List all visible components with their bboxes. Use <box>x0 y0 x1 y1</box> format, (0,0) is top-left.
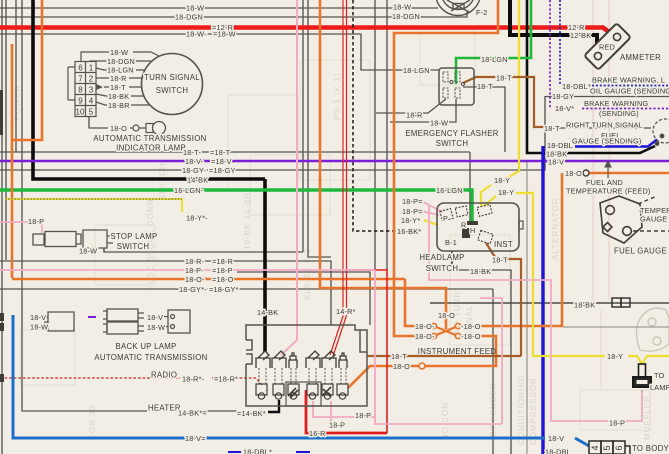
wire 18-DGN top row <box>0 11 467 17</box>
faint pink bleed band left <box>600 310 602 390</box>
automatic transmission indicator lamp <box>133 125 139 131</box>
svg-text:14-BK: 14-BK <box>257 308 278 317</box>
svg-text:18-P: 18-P <box>355 411 371 420</box>
svg-text:5: 5 <box>602 445 612 450</box>
headlamp switch pins <box>440 204 493 243</box>
wire grey 18-BK vertical x511 <box>452 270 511 454</box>
svg-text:12-BK: 12-BK <box>570 31 591 40</box>
fuel gauge dashed links <box>633 196 669 231</box>
svg-text:TURN SIGNAL: TURN SIGNAL <box>144 73 200 82</box>
svg-text:18-P-: 18-P- <box>185 266 204 275</box>
wire purple tick backup <box>88 316 96 318</box>
wire pink fuse stub A <box>313 401 375 417</box>
svg-text:18-O: 18-O <box>110 124 127 133</box>
wire pink headlamp stubs <box>421 201 443 215</box>
wire grey heater label link <box>205 410 237 412</box>
svg-text:18-T: 18-T <box>477 82 493 91</box>
wire orange distributor feed <box>394 0 498 336</box>
svg-text:18-Y: 18-Y <box>494 176 510 185</box>
wire grey vertical x527 lower <box>526 160 528 454</box>
svg-text:18-W: 18-W <box>30 323 48 332</box>
left edge connector marks <box>0 90 4 382</box>
wire grey vertical left edge B <box>5 0 7 260</box>
svg-text:POWER: POWER <box>13 85 22 120</box>
svg-text:=18-V: =18-V <box>211 157 232 166</box>
svg-text:OIL GAUGE (SENDING: OIL GAUGE (SENDING <box>590 87 669 96</box>
wire red vertical x387 <box>345 270 387 433</box>
svg-text:18-W: 18-W <box>147 323 165 332</box>
wire brown 18-T fuse row <box>367 355 521 357</box>
wire grey vertical center x308 <box>308 0 331 257</box>
wire grey 18-BK connector row y303 <box>430 302 669 304</box>
emergency flasher switch box <box>439 68 474 105</box>
fuse dashed strands <box>259 368 346 384</box>
wire green 18-LGN flasher <box>456 0 531 84</box>
svg-text:RED: RED <box>599 43 615 52</box>
svg-text:18-LGN: 18-LGN <box>481 55 508 64</box>
svg-text:18-DBL*: 18-DBL* <box>562 82 591 91</box>
svg-text:MUFFLER: MUFFLER <box>643 395 652 440</box>
wire grey vertical left edge A <box>1 0 3 454</box>
svg-text:18-V: 18-V <box>548 158 564 167</box>
svg-text:BRAKE WARNING: BRAKE WARNING <box>584 99 648 108</box>
svg-text:=18-GY: =18-GY <box>209 166 236 175</box>
svg-text:16-BK*: 16-BK* <box>397 227 421 236</box>
wire black 12-BK ammeter <box>510 0 597 52</box>
wire grey vertical left x16 <box>15 0 17 152</box>
wire yellow stub 18-Y* <box>424 220 438 225</box>
wire grey 18-GY row <box>0 96 545 170</box>
wire grey row under pink 18-P <box>237 272 370 325</box>
wire grey 18-T row <box>0 152 470 225</box>
svg-text:18-O-: 18-O- <box>415 322 435 331</box>
wire orange left vertical x12 <box>11 44 14 278</box>
wire blue 18-DBL main vertical <box>541 146 544 454</box>
svg-text:18-R*-: 18-R*- <box>182 375 205 384</box>
svg-text:SWITCH: SWITCH <box>158 162 167 200</box>
wire blue 18-V backup body feed <box>13 315 589 446</box>
svg-text:P: P <box>443 214 448 223</box>
svg-text:18-W: 18-W <box>430 119 448 128</box>
wire black long vertical x527 to gauges <box>527 0 655 153</box>
svg-text:18-O: 18-O <box>393 362 410 371</box>
wire purple dashed brake warning sending <box>550 0 669 109</box>
svg-text:16-LGN: 16-LGN <box>436 186 463 195</box>
svg-text:18-Y*: 18-Y* <box>401 216 420 225</box>
svg-text:AUTOMATIC TRANSMISSION: AUTOMATIC TRANSMISSION <box>93 134 206 143</box>
wire grey vertical x493 <box>492 289 494 454</box>
svg-text:18-GY: 18-GY <box>552 92 574 101</box>
wire grey vertical center x303 <box>302 0 304 252</box>
svg-text:18-P: 18-P <box>329 421 345 430</box>
headlamp switch body INST <box>437 203 519 251</box>
svg-text:18-BR: 18-BR <box>108 101 130 110</box>
svg-text:R: R <box>461 221 466 230</box>
wire grey 18-T flasher vertical <box>463 87 505 152</box>
svg-text:18-BK 14-BR: 18-BK 14-BR <box>243 192 252 250</box>
svg-text:SWITCH: SWITCH <box>156 86 189 95</box>
svg-text:H: H <box>470 226 475 235</box>
faint pink bleed bands right <box>593 0 609 305</box>
svg-text:STOP LAMP: STOP LAMP <box>110 232 157 241</box>
svg-text:B-1: B-1 <box>445 238 457 247</box>
wire red 12-R main feed <box>0 28 617 39</box>
stop lamp switch <box>33 230 113 252</box>
wire brown 18-T instrument to INST <box>486 243 521 356</box>
svg-text:18-O-: 18-O- <box>185 275 205 284</box>
wire yellow vertical x519 to headlamp <box>481 0 519 207</box>
wire grey faint row y327 right <box>563 326 669 328</box>
svg-text:18-T: 18-T <box>391 352 407 361</box>
wire grey right turn signal row <box>545 127 651 129</box>
svg-text:=18-O: =18-O <box>212 275 234 284</box>
wire grey flasher 18-R <box>376 99 446 113</box>
svg-text:CONDITIONING: CONDITIONING <box>517 374 526 445</box>
svg-text:16-R: 16-R <box>309 429 326 438</box>
svg-text:16-LGN-: 16-LGN- <box>174 186 204 195</box>
wire red dashed radio feed <box>0 378 262 385</box>
svg-text:-18-O: -18-O <box>461 332 481 341</box>
turn signal connector block <box>68 52 159 117</box>
wire grey 18-W stop lamp bus <box>104 248 303 252</box>
svg-text:18-V: 18-V <box>548 434 564 443</box>
wire black 18-BK headlamp switch <box>451 251 453 270</box>
wire brown 18-T flasher to right turn signal <box>463 77 545 127</box>
instrument feed X node <box>434 326 458 336</box>
turn signal pin 3 arrow <box>96 84 103 90</box>
svg-text:18-W: 18-W <box>186 4 204 13</box>
svg-text:=18-W: =18-W <box>213 30 236 39</box>
svg-text:6: 6 <box>78 64 83 73</box>
svg-text:HEATER: HEATER <box>148 404 181 413</box>
svg-text:TO: TO <box>654 371 665 380</box>
emergency flasher pins <box>443 72 465 98</box>
backup lamp left connector <box>42 312 74 331</box>
svg-text:18-V-: 18-V- <box>185 157 204 166</box>
svg-text:18-O: 18-O <box>438 311 455 320</box>
wire pink fuse stub B <box>330 401 332 424</box>
svg-text:GAUGE (S: GAUGE (S <box>640 215 669 224</box>
bleed gauge blob top-right of fuse area <box>636 308 669 351</box>
svg-text:18-W-: 18-W- <box>186 30 207 39</box>
svg-text:18-BK: 18-BK <box>574 301 595 310</box>
fuel temperature feed terminal <box>583 170 589 176</box>
turn signal connector numbers <box>76 64 94 117</box>
headlamp switch R pin solid <box>462 228 470 238</box>
wire grey flasher 18-W <box>390 99 456 122</box>
svg-text:COMPRESSOR: COMPRESSOR <box>529 377 538 445</box>
svg-text:18-DBL: 18-DBL <box>545 448 571 454</box>
wire black 14-BK vertical to fuse block <box>263 179 267 352</box>
svg-text:18-T: 18-T <box>110 83 126 92</box>
svg-text:(SENDING): (SENDING) <box>599 109 639 118</box>
svg-text:18-O-: 18-O- <box>415 332 435 341</box>
svg-text:18-T-: 18-T- <box>183 148 201 157</box>
backup lamp right connector <box>164 310 190 333</box>
svg-text:RIGHT TURN SIGNAL: RIGHT TURN SIGNAL <box>566 121 643 130</box>
wire 18-W second row to flasher <box>0 34 439 70</box>
svg-text:NO CON: NO CON <box>441 402 450 440</box>
wire black main vertical x33 14-BK <box>33 0 265 179</box>
svg-text:18-R: 18-R <box>110 74 127 83</box>
wire orange fuel temperature feed row <box>589 172 669 175</box>
wire orange left vertical x42 <box>12 0 42 140</box>
wire grey 18-GY* bus row <box>0 288 493 290</box>
svg-text:=18-R: =18-R <box>212 257 233 266</box>
svg-text:TEMPERATURE (FEED): TEMPERATURE (FEED) <box>566 187 651 196</box>
svg-text:10: 10 <box>76 108 85 117</box>
svg-text:8: 8 <box>78 86 83 95</box>
svg-text:18-T: 18-T <box>496 74 512 83</box>
svg-text:HEADLAMP: HEADLAMP <box>419 253 464 262</box>
turn signal switch circle <box>142 54 203 115</box>
svg-text:AUTOMATIC TRANSMISSION: AUTOMATIC TRANSMISSION <box>94 353 207 362</box>
svg-text:=14-BK*: =14-BK* <box>237 409 266 418</box>
svg-text:1: 1 <box>89 64 94 73</box>
fuse lug marks <box>288 387 331 398</box>
wire pink stop lamp feed <box>0 222 42 233</box>
fuel temperature feed arrow <box>605 161 611 178</box>
svg-text:18-LGN: 18-LGN <box>403 66 430 75</box>
lamp bulb to lamp <box>633 364 651 387</box>
svg-text:3: 3 <box>89 86 94 95</box>
wire pink x502 vertical <box>480 298 502 424</box>
svg-text:=18-P: =18-P <box>212 266 233 275</box>
instrument feed splice terminal <box>419 363 425 369</box>
wire pink x375 to fuse bottom <box>375 270 502 424</box>
wire yellow 18-Y headlamp to lamp <box>484 193 669 364</box>
svg-text:18-V: 18-V <box>147 313 163 322</box>
svg-text:INSTRUMENT FEED: INSTRUMENT FEED <box>418 347 496 356</box>
wire dark blue 18-DBL fuel gauge sending <box>575 140 657 147</box>
svg-text:5: 5 <box>89 108 94 117</box>
svg-text:18-V*: 18-V* <box>555 104 574 113</box>
svg-text:SWITCH: SWITCH <box>426 264 459 273</box>
wire green 16-LGN main row <box>0 190 472 222</box>
svg-text:GAUGE (SENDING): GAUGE (SENDING) <box>572 137 642 146</box>
svg-text:LAMP: LAMP <box>650 383 669 392</box>
svg-text:18-P=: 18-P= <box>402 197 423 206</box>
svg-text:INST: INST <box>494 240 513 249</box>
svg-text:18-GY*-: 18-GY*- <box>179 285 207 294</box>
svg-text:18-DBL*: 18-DBL* <box>243 448 272 454</box>
fuel gauge polygon <box>600 196 642 243</box>
svg-text:7: 7 <box>78 75 83 84</box>
svg-text:18-T: 18-T <box>544 124 560 133</box>
wire orange 18-O bus row <box>12 279 431 326</box>
18-BK inline connector y303 <box>612 298 621 307</box>
fuse inner grey box <box>286 382 321 406</box>
wire red 16-R fuse out <box>306 390 387 433</box>
fuse clips row <box>256 351 347 368</box>
wire pink 18-P bus row <box>0 269 375 271</box>
svg-text:14-R*: 14-R* <box>336 307 356 316</box>
svg-text:18-GY-: 18-GY- <box>182 166 206 175</box>
svg-text:PS-1 (K-1): PS-1 (K-1) <box>333 72 342 120</box>
svg-text:EMERGENCY FLASHER: EMERGENCY FLASHER <box>405 129 498 138</box>
svg-text:9: 9 <box>78 97 83 106</box>
wire orange 18-O fuse block feed <box>348 366 419 388</box>
wire dark blue 18-DBL* bottom stub <box>228 451 310 453</box>
svg-text:18-W: 18-W <box>393 3 411 12</box>
svg-text:18-Y*-: 18-Y*- <box>186 214 208 223</box>
svg-text:-18-O: -18-O <box>461 322 481 331</box>
svg-text:18-T: 18-T <box>492 256 508 265</box>
wire pink headlamp row to lamp <box>429 206 642 421</box>
wire black 14-BK* fuse to heater <box>268 400 279 412</box>
svg-text:18-V=: 18-V= <box>185 434 206 443</box>
svg-text:6: 6 <box>614 445 624 450</box>
svg-text:2: 2 <box>89 75 94 84</box>
fuse lugs row <box>256 384 348 399</box>
svg-text:18-P: 18-P <box>28 217 44 226</box>
wire orange X lower right to fuse <box>425 336 496 366</box>
svg-text:18-Y: 18-Y <box>498 188 514 197</box>
svg-text:BACK UP LAMP: BACK UP LAMP <box>115 342 176 351</box>
svg-text:14-BK: 14-BK <box>187 176 208 185</box>
svg-text:=18-R*: =18-R* <box>214 375 238 384</box>
svg-text:SWITCH: SWITCH <box>117 242 150 251</box>
wire red thin 14-R pair <box>343 0 347 308</box>
wire orange X upper right to fuel feed <box>461 173 562 326</box>
wire orange vertical x320 <box>320 0 446 329</box>
svg-text:F-2: F-2 <box>476 8 488 17</box>
svg-text:RADIO: RADIO <box>151 371 177 380</box>
svg-text:18-W: 18-W <box>110 48 128 57</box>
wire 18-W top row <box>0 7 438 9</box>
svg-text:18-DGN: 18-DGN <box>392 12 420 21</box>
svg-text:18-O: 18-O <box>565 169 582 178</box>
ammeter <box>584 23 631 70</box>
wire grey vertical x375 upper <box>374 0 376 270</box>
svg-text:4: 4 <box>89 97 94 106</box>
fuse block outline <box>246 325 367 406</box>
gauge circle right edge <box>653 119 669 145</box>
headlamp switch H terminal <box>467 221 478 225</box>
svg-text:TO BODY: TO BODY <box>632 444 669 453</box>
wire black dashed vertical x353 16-BK <box>353 0 398 231</box>
svg-text:=18-GY*: =18-GY* <box>209 285 239 294</box>
wire grey vertical x387 upper <box>386 0 388 270</box>
wire grey 18-R bus row <box>0 261 331 325</box>
wire red 14-R* into fuse <box>330 310 348 356</box>
svg-text:18-BK: 18-BK <box>108 92 129 101</box>
body connector 4 5 6 <box>589 441 630 454</box>
svg-text:ALTERNATOR: ALTERNATOR <box>551 198 560 260</box>
wire pink vertical x297 <box>281 0 297 355</box>
svg-text:BRAKE WARNING, L: BRAKE WARNING, L <box>592 76 665 85</box>
turn signal lamp wire <box>89 117 146 129</box>
wire dark blue dashed brake warning <box>560 0 669 86</box>
svg-text:14-BK*=: 14-BK*= <box>178 409 207 418</box>
svg-text:INDICATOR LAMP: INDICATOR LAMP <box>116 144 186 153</box>
svg-text:18-R-: 18-R- <box>185 257 205 266</box>
svg-text:18-P=: 18-P= <box>402 207 423 216</box>
svg-text:FUEL GAUGE: FUEL GAUGE <box>614 247 667 256</box>
svg-text:AMMETER: AMMETER <box>620 53 661 62</box>
wire grey lamp shadow under pink <box>551 281 642 421</box>
svg-text:SWITCH: SWITCH <box>436 139 469 148</box>
svg-text:4: 4 <box>590 445 600 450</box>
svg-text:18-R: 18-R <box>406 111 423 120</box>
svg-text:18-BK: 18-BK <box>470 267 491 276</box>
svg-text:18-W: 18-W <box>79 247 97 256</box>
wire yellow dotted 18-Y* left <box>5 199 182 212</box>
wire grey vertical heater feed x22 <box>22 0 147 411</box>
wire purple 18-V main row <box>0 160 669 163</box>
distributor arc F-2 <box>436 0 481 16</box>
svg-text:=18-T: =18-T <box>210 148 231 157</box>
backup lamp middle plugs <box>103 309 144 334</box>
svg-text:18-DGN: 18-DGN <box>175 13 203 22</box>
svg-text:18-Y: 18-Y <box>607 352 623 361</box>
svg-text:18-P: 18-P <box>609 419 625 428</box>
svg-text:18-V: 18-V <box>30 313 46 322</box>
wire grey 18-GY to oil gauge <box>545 96 669 98</box>
